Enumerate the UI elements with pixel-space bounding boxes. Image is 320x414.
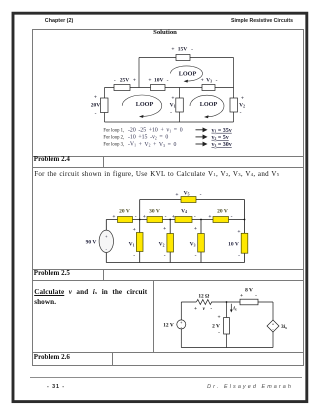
node c (V3 branch junction) — [200, 219, 202, 221]
svg-text:ix: ix — [233, 306, 237, 312]
svg-text:12 V: 12 V — [163, 322, 174, 328]
Solution title — [120, 29, 210, 36]
footer rule — [30, 376, 302, 379]
wire: right riser — [233, 58, 235, 88]
resistor V3 — [202, 85, 215, 91]
arrow to result 3 — [196, 142, 207, 145]
svg-text:-: - — [218, 330, 220, 336]
resistor 20V left — [118, 217, 133, 223]
source 20V — [101, 98, 109, 113]
resistor 25V — [114, 85, 130, 91]
wire: bottom net — [106, 262, 244, 264]
resistor 30V — [147, 217, 163, 223]
Problem 2.6 heading — [34, 353, 70, 361]
resistor V1 — [136, 233, 143, 252]
svg-text:v: v — [203, 306, 206, 312]
svg-text:+: + — [240, 293, 243, 299]
footer author — [150, 384, 293, 390]
svg-text:12 Ω: 12 Ω — [198, 294, 209, 300]
wire: middle branch — [226, 302, 228, 348]
node a (V1 branch junction) — [139, 219, 141, 221]
wire: V3 branch — [200, 220, 202, 263]
wire: top net — [139, 57, 234, 59]
results — [212, 128, 232, 148]
Problem 2.4 heading — [34, 155, 70, 163]
wire: main top net — [106, 219, 244, 221]
Problem 2.4 statement — [34, 170, 279, 178]
resistor V1 — [176, 98, 184, 112]
current arrow ix — [230, 304, 232, 310]
wire: V5 right riser — [244, 200, 246, 234]
svg-text:-: - — [255, 293, 257, 299]
wire: V5 left riser — [139, 200, 141, 220]
resistor 20V right — [213, 217, 229, 223]
arrow to result 2 — [196, 135, 207, 138]
resistor 8V — [240, 299, 258, 305]
resistor 12ohm zigzag — [196, 300, 212, 305]
wire: top net — [181, 301, 273, 303]
svg-text:8 V: 8 V — [245, 288, 253, 294]
resistor 10V — [151, 85, 166, 91]
table grid lines — [32, 28, 304, 31]
Problem 2.5 statement — [34, 288, 147, 307]
wire: right branch — [272, 302, 274, 348]
element 2V — [224, 318, 230, 335]
wire: bottom net — [105, 121, 234, 123]
resistor 15V — [176, 55, 190, 61]
wire: top V5 net — [140, 199, 245, 201]
source 12V — [177, 320, 186, 329]
resistor V2 — [167, 234, 174, 253]
header right — [173, 18, 293, 24]
arrow to result 1 — [196, 128, 207, 131]
svg-text:3ix: 3ix — [281, 324, 287, 330]
source 90V — [99, 230, 113, 252]
loop arrow top — [171, 66, 203, 81]
wire: V1 branch — [139, 220, 141, 263]
wire: middle net — [105, 87, 234, 89]
header left — [45, 18, 73, 24]
wire: bottom net — [181, 347, 273, 349]
loop arrow left — [122, 95, 162, 116]
resistor V4 — [175, 217, 192, 223]
wire: V1 branch — [179, 88, 181, 123]
footer page number — [47, 384, 65, 390]
wire: V2 branch — [169, 220, 171, 263]
node: middle top junction — [226, 301, 228, 303]
resistor V3 — [198, 234, 205, 253]
node d (right branch junction) — [244, 219, 246, 221]
resistor 10V — [241, 233, 248, 253]
wire: V2 branch — [233, 88, 235, 123]
wire: 10V right branch — [244, 253, 246, 262]
wire: left riser of top loop — [138, 58, 140, 88]
wire: left source branch — [104, 88, 106, 123]
resistor V2 — [230, 98, 238, 112]
wire: source branch — [105, 220, 107, 263]
svg-text:+: + — [194, 306, 197, 312]
node b (V2 branch junction) — [169, 219, 171, 221]
resistor V5 — [181, 197, 196, 203]
loop equations — [103, 129, 124, 148]
dependent source 3ix diamond — [267, 320, 279, 332]
loop arrow right — [190, 95, 224, 117]
svg-text:-: - — [210, 306, 212, 312]
wire: left branch — [180, 302, 182, 348]
svg-text:+: + — [217, 315, 220, 321]
Problem 2.5 heading — [34, 269, 70, 277]
